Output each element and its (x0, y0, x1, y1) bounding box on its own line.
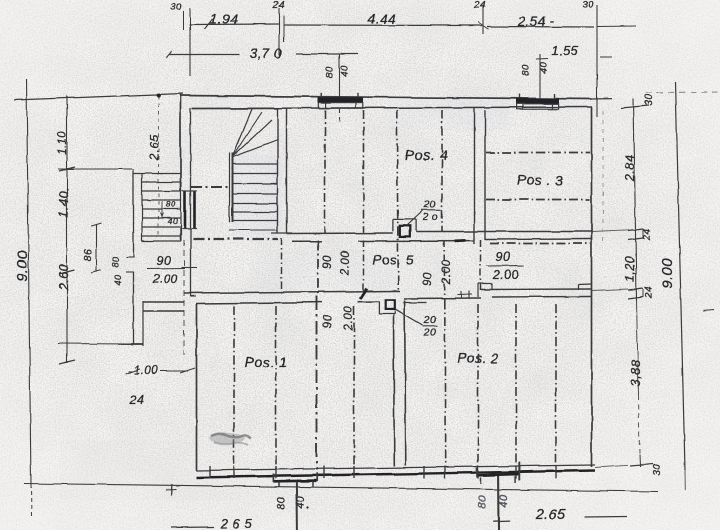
corridor notch (478, 284, 492, 298)
outside stair right side (180, 182, 182, 241)
right text 3.88 (628, 359, 643, 387)
entry wall bottom line (143, 310, 184, 312)
room label Pos. 4 (404, 148, 448, 164)
chimney C1 filled band (318, 97, 363, 102)
svg-text:1.00: 1.00 (134, 365, 158, 377)
beam centerline below stairwell (193, 238, 278, 240)
right text 2.84 (623, 155, 637, 182)
dimension text 1.10 (57, 131, 69, 155)
wall tick pair (457, 291, 472, 299)
dimension line left inner (66, 96, 68, 363)
room label Pos. 3 (516, 172, 563, 188)
post upper text 20 a (423, 199, 437, 211)
post detail lower fill (385, 300, 395, 310)
chimney C3 text 40 (295, 496, 309, 510)
beam centerline P2-d (555, 304, 557, 466)
chimney C4 text 40 (499, 494, 511, 508)
svg-text:2.54: 2.54 (517, 14, 546, 29)
site boundary line (24, 484, 658, 492)
beam centerline stairwell (191, 186, 229, 188)
top wall inner (192, 107, 592, 109)
entry wall top line (143, 301, 184, 303)
dimension text 24 left (129, 393, 145, 407)
post upper leader (406, 211, 423, 227)
dimension line 3.70 right segment (296, 53, 358, 55)
outside stair left side (141, 173, 143, 241)
corridor fraction 90 right (496, 250, 511, 264)
svg-text:1.10: 1.10 (57, 131, 69, 155)
right tick y229 (628, 229, 643, 231)
beam centerline P1-a (233, 306, 235, 469)
extension to 24 tick lower (592, 289, 628, 291)
beam centerline P2-a (444, 300, 446, 466)
stairwell top wall inner (193, 108, 279, 110)
pos3 left wall inner (484, 110, 486, 240)
right text 30 top (644, 94, 655, 106)
top wall outer (180, 96, 592, 100)
svg-text:2.00: 2.00 (340, 251, 352, 276)
corridor dim 90 right (422, 272, 434, 286)
pos3 left wall outer (474, 107, 476, 244)
right text 30 bottom (652, 464, 663, 476)
scan tint washes (60, 100, 510, 500)
svg-text:80: 80 (111, 256, 121, 267)
svg-text:30: 30 (582, 0, 594, 11)
svg-text:1,20: 1,20 (623, 256, 637, 282)
porch left wall lower (133, 272, 135, 344)
svg-text:24: 24 (129, 393, 145, 407)
svg-text:20: 20 (423, 199, 437, 211)
porch left wall upper (133, 169, 135, 257)
beam centerline P5-d (443, 240, 446, 300)
beam centerline P5-c (363, 240, 365, 296)
right tick y106 (621, 106, 649, 109)
stair text 80 (166, 199, 176, 209)
right edge small tick (703, 310, 714, 311)
bottom wall inner (196, 465, 595, 471)
right text 24 lower (644, 286, 655, 299)
svg-text:40: 40 (539, 62, 550, 74)
corridor dim 90 left (322, 255, 334, 269)
svg-text:40: 40 (168, 216, 178, 226)
svg-text:9.00: 9.00 (659, 257, 676, 288)
divider wall left line (393, 315, 396, 466)
left wall outer upper (180, 94, 182, 191)
svg-text:80: 80 (166, 199, 176, 209)
pos1 door dim 90 (322, 314, 334, 328)
svg-text:2.84: 2.84 (623, 155, 637, 182)
extension to 30 tick bottom (595, 465, 628, 467)
porch bottom tick (131, 343, 143, 345)
post lower text 20 a (423, 314, 437, 326)
svg-text:2.00: 2.00 (492, 268, 519, 282)
chimney C3 bottom line (273, 479, 317, 482)
dimension text 1.40 (57, 187, 71, 217)
right tick y238 (628, 228, 643, 240)
extension line chimney1 center (339, 54, 341, 124)
svg-text:1.55: 1.55 (551, 43, 579, 58)
winder fan line 4 (233, 112, 262, 156)
dimension text 3.70 (250, 46, 283, 61)
dimension line 9.00 left (27, 79, 32, 517)
svg-text:40: 40 (113, 274, 123, 285)
right wall faint outer (602, 111, 604, 243)
dimension line 3.70 left segment (166, 51, 240, 58)
pos1 left wall (196, 304, 198, 471)
post detail lower box (379, 301, 395, 314)
extension line y343 (58, 343, 133, 346)
tick at y272 (59, 270, 75, 274)
pos4 left wall (286, 108, 288, 233)
beam centerline P2-c (515, 304, 517, 466)
corridor left wall a (183, 240, 185, 355)
entry door jamb right (193, 191, 196, 228)
svg-text:20: 20 (423, 327, 437, 339)
wall bold overdraw (455, 239, 466, 242)
post detail upper fill (400, 226, 410, 237)
corridor step right (579, 284, 592, 290)
svg-text:90: 90 (422, 272, 434, 286)
dimension line right inner (634, 98, 641, 467)
svg-text:90: 90 (157, 254, 172, 268)
top wall outer right tail (592, 98, 612, 100)
porch opening jog bottom (126, 271, 134, 273)
pos3 bottom wall lower (485, 238, 591, 241)
winder fan line 2 (233, 120, 272, 156)
dimension text 24 top-mid (272, 0, 285, 11)
dimension text 40 chimney1 (340, 65, 351, 77)
chimney C2 filled band (516, 99, 559, 104)
winder center post (230, 153, 233, 222)
svg-text:80: 80 (521, 64, 532, 76)
post detail upper box (393, 219, 416, 231)
svg-text:2.60: 2.60 (57, 264, 71, 291)
faint dashed line top right (646, 92, 720, 95)
dimension line 2.65 right (584, 516, 627, 519)
svg-text:Pos . 3: Pos . 3 (516, 172, 563, 188)
entry left dim fraction 90 (157, 254, 172, 268)
svg-text:24: 24 (272, 0, 285, 11)
pos1 door dim 2.00 (343, 306, 355, 331)
entry door jamb left (184, 191, 187, 229)
chimney C3 sides (273, 473, 317, 487)
chimney C3 text 80 (276, 496, 288, 510)
post upper text 20 b (421, 211, 438, 223)
right wall (591, 107, 593, 467)
dimension line 2.65 left (171, 526, 214, 529)
corridor right bottom wall upper (481, 288, 591, 291)
pos3 bottom wall upper (475, 231, 592, 233)
dimension text 80 porch (111, 256, 121, 267)
room label Pos. 5 (372, 253, 413, 268)
entry left dim fraction 2.00 (151, 272, 177, 286)
extension line top-left slanted (14, 94, 183, 101)
right tick y464 (630, 464, 653, 466)
corridor dim 2.00 right (441, 260, 453, 285)
tick at y362 (59, 360, 75, 364)
beam centerline P4-a (324, 110, 326, 233)
right text 24 upper (642, 228, 653, 241)
stair length line 2.65 (158, 96, 160, 237)
corridor right bottom wall lower (403, 297, 591, 303)
post lower text 20 b (423, 327, 437, 339)
stairwell left wall inner (190, 109, 192, 297)
dimension text 80 chimney2 (521, 64, 532, 76)
entry door jamb caps (182, 191, 197, 229)
svg-text:2.00: 2.00 (151, 272, 177, 286)
svg-text:24: 24 (642, 228, 653, 241)
beam centerline P4-d (441, 110, 443, 232)
stairwell wall tick (271, 232, 292, 234)
winder treads (233, 164, 278, 221)
extension to 24 tick upper (592, 230, 629, 232)
pos4 bottom wall upper line (287, 232, 393, 235)
stairwell right wall (277, 108, 279, 233)
beam stubs below bottom wall (210, 466, 556, 479)
svg-text:2 6 5: 2 6 5 (220, 516, 253, 530)
outside stair top edge (133, 173, 181, 175)
extension line 24 at x279 (280, 8, 285, 55)
svg-text:90: 90 (322, 314, 334, 328)
chimney C4 text 80 (477, 495, 489, 509)
svg-text:2.00: 2.00 (441, 260, 453, 285)
svg-text:1.40.: 1.40. (57, 187, 71, 217)
extension line 24 at x483 (478, 5, 488, 34)
beam centerline P3-b (486, 199, 590, 201)
entry fraction bar (147, 268, 185, 271)
beam centerline P4-b (363, 110, 365, 233)
svg-text:3,88: 3,88 (628, 359, 643, 387)
dimension text 2.65 left (220, 516, 253, 530)
corridor fraction bar right (487, 265, 524, 268)
svg-text:40: 40 (295, 496, 307, 510)
right tick y297 (628, 288, 643, 299)
dimension text 80 chimney1 (325, 66, 336, 78)
dimension text 30 top-right (582, 0, 594, 11)
svg-text:20: 20 (423, 314, 437, 326)
stair text 40 (168, 216, 178, 226)
boundary corner mark (166, 484, 176, 495)
dimension text 2.65 stairs (147, 134, 161, 160)
outside stair treads (142, 182, 181, 236)
beam centerline P5-a (281, 238, 283, 296)
winder fan line 3 (233, 140, 278, 157)
beam centerline P4-c (397, 110, 399, 290)
dimension text 9.00 left (14, 250, 31, 281)
chimney C2 body (517, 94, 559, 109)
dimension line 9.00 right (676, 82, 686, 490)
svg-text:90: 90 (322, 255, 334, 269)
winder fan line 1 (233, 109, 252, 155)
dimension text 9.00 right (659, 257, 676, 288)
porch opening jog top (126, 256, 134, 258)
corridor top wall right upper (416, 231, 475, 233)
extension line 30 at x597 (596, 5, 598, 117)
entry sill line (181, 267, 197, 269)
corridor left wall b (190, 295, 196, 297)
dimension text 86 (82, 249, 94, 262)
right text 1.20 (623, 256, 637, 282)
svg-text:3,7 0: 3,7 0 (250, 46, 283, 61)
chimney C3 stem (295, 482, 298, 530)
dimension text 1.00 (125, 365, 195, 377)
room label Pos. 2 (457, 351, 498, 366)
svg-text:2.65: 2.65 (535, 507, 567, 523)
beam solid P1-c (316, 296, 318, 470)
stair arrow (161, 201, 164, 217)
beam end bold tick (361, 289, 368, 299)
tick at y169 (59, 167, 75, 171)
extension line 2.54 right tail (597, 25, 636, 28)
post lower text underline (423, 325, 438, 327)
beam centerline P3-c (490, 243, 590, 245)
dimension text 4.44 (368, 12, 396, 27)
svg-text:1.94: 1.94 (210, 12, 238, 27)
corridor fraction 2.00 right (492, 268, 519, 282)
svg-text:-: - (550, 13, 555, 28)
left wall outer lower (180, 228, 182, 240)
chimney C1 body (319, 93, 363, 108)
extension line chimney2 center (539, 54, 541, 99)
corridor bottom wall upper (184, 291, 400, 293)
svg-text:30: 30 (652, 464, 663, 476)
beam centerline P1-b (275, 306, 277, 469)
dimension text 30 top-left (170, 2, 182, 13)
pos4 bottom wall lower line (292, 240, 475, 243)
beam centerline P2-b (477, 304, 479, 466)
chimney C4 bottom line (477, 474, 519, 475)
svg-text:80: 80 (477, 495, 489, 509)
dimension text 24 top-right (473, 0, 486, 11)
beam centerline P1-d (353, 306, 355, 469)
beam centerline P5-b (317, 240, 319, 296)
dimension text 40 chimney2 (539, 62, 550, 74)
dimension text 1.55 (536, 43, 579, 59)
dimension text 2.65 right (535, 507, 567, 523)
svg-text:30: 30 (170, 2, 182, 13)
dimension text 40 porch (113, 274, 123, 285)
svg-text:24: 24 (473, 0, 486, 11)
divider wall right line (405, 300, 406, 466)
porch inner wall (142, 301, 144, 346)
svg-text:80: 80 (325, 66, 336, 78)
svg-text:9.00: 9.00 (14, 250, 31, 281)
post upper text underline (421, 209, 441, 211)
svg-text:30: 30 (644, 94, 655, 106)
svg-text:24: 24 (644, 286, 655, 299)
right tick y289 (628, 288, 643, 290)
dimension line 2.54 (487, 13, 594, 28)
svg-text:Pos. 1: Pos. 1 (245, 354, 288, 370)
svg-text:90: 90 (496, 250, 511, 264)
extension line y169 (58, 168, 133, 170)
svg-text:2 o: 2 o (421, 211, 438, 223)
corridor dim 2.00 left (340, 251, 352, 276)
svg-text:Pos. 5: Pos. 5 (372, 253, 413, 268)
dimension 86 line (91, 223, 101, 273)
dimension text 2.54 (517, 14, 546, 29)
dimension line 1.55 tail (600, 56, 612, 58)
stair length dot (157, 93, 161, 97)
room label Pos. 1 (245, 354, 288, 370)
dimension line 4.44 (284, 24, 482, 27)
beam centerline P5-e (480, 240, 482, 290)
svg-text:40: 40 (340, 65, 351, 77)
corridor bottom wall lower (196, 302, 379, 304)
svg-text:4.44: 4.44 (368, 12, 396, 27)
svg-text:80: 80 (276, 496, 288, 510)
winder bottom tread (229, 229, 277, 231)
svg-text:86: 86 (82, 249, 94, 262)
chimney C4 sides (477, 462, 519, 484)
dimension text 2.60 (57, 264, 71, 291)
svg-text:2.65: 2.65 (147, 134, 161, 160)
beam centerline P3-a (486, 152, 590, 154)
outside stair bottom edge (142, 240, 181, 242)
chimney C4 stem (493, 476, 510, 530)
dimension text 1.94 (210, 12, 238, 27)
dimension line 1.94 (189, 19, 280, 29)
extension line left 30 (184, 8, 191, 76)
bottom wall outer (196, 471, 595, 478)
smudge mark (209, 433, 251, 446)
svg-text:40: 40 (499, 494, 511, 508)
post lower leader (395, 309, 422, 325)
paper background (0, 0, 1, 1)
